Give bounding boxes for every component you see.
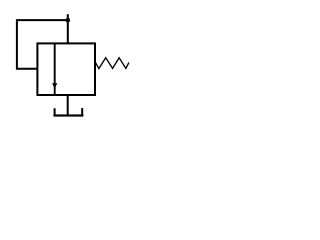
junction dot — [66, 18, 71, 23]
pilot line (top horizontal, left vertical, bottom horizontal) — [17, 20, 68, 69]
valve body U1 (envelope square) — [37, 43, 95, 95]
tank (reservoir) — [53, 108, 83, 117]
drain line T — [67, 95, 69, 115]
arrowhead (points down) — [52, 83, 57, 88]
spring (zigzag) — [96, 58, 129, 69]
flow path arrow shaft — [54, 43, 56, 95]
top port line P — [67, 14, 69, 43]
